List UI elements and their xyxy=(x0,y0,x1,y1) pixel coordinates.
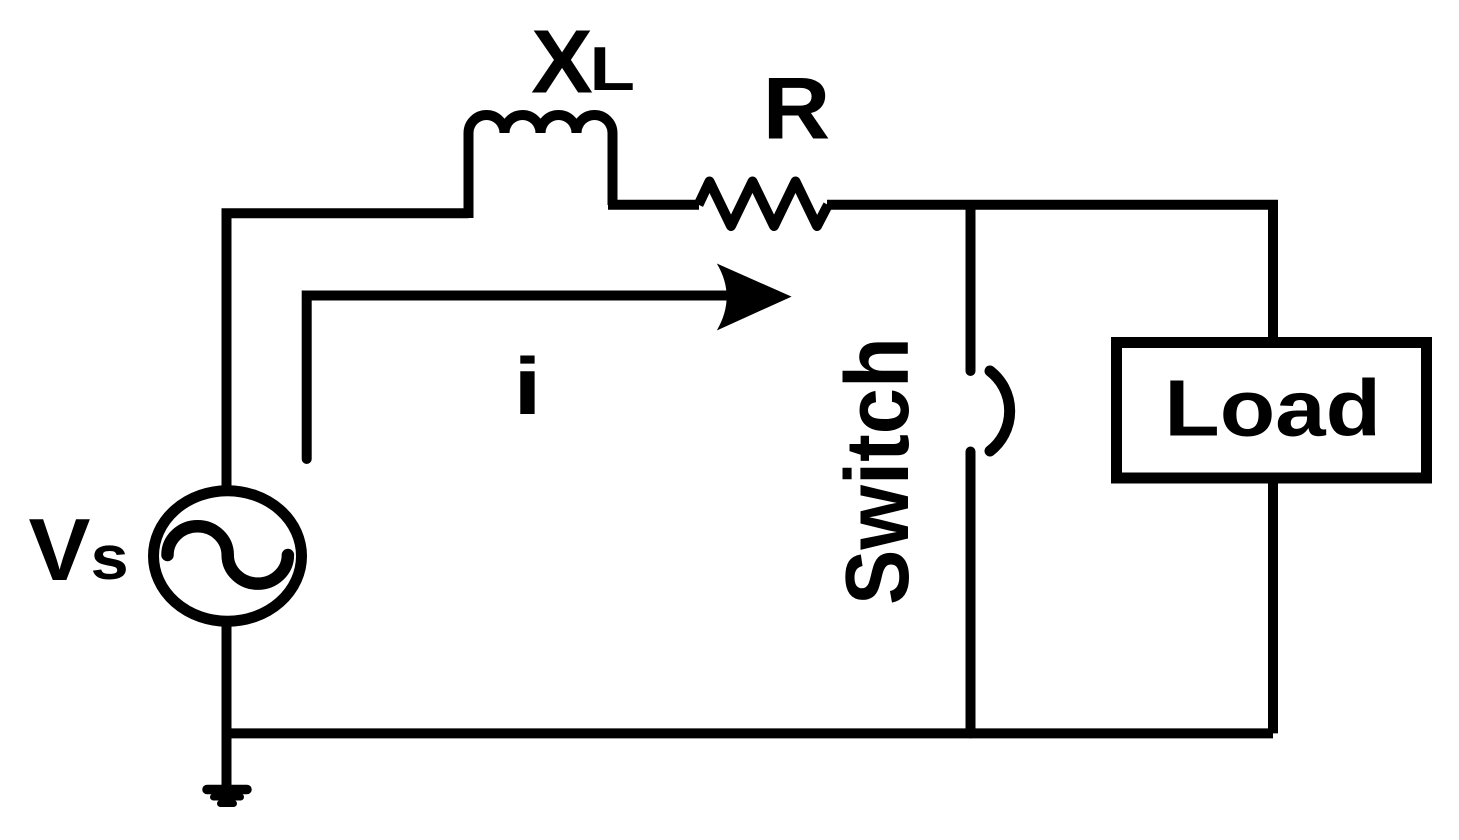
wire: top-left horizontal segment + left riser down to source Vs xyxy=(227,213,469,487)
wire: inductor to resistor xyxy=(608,200,699,210)
current arrow i: tail and shaft xyxy=(307,296,740,460)
source stem: circle bottom to ground xyxy=(222,620,232,789)
svg-text:Load: Load xyxy=(1164,363,1381,452)
AC voltage source Vs (circle) xyxy=(154,491,302,622)
svg-text:V: V xyxy=(29,500,91,599)
sine wave inside source xyxy=(168,526,288,583)
svg-text:R: R xyxy=(763,58,831,157)
svg-text:i: i xyxy=(513,342,542,432)
inductor XL xyxy=(469,115,613,218)
svg-text:L: L xyxy=(590,35,636,104)
wire: resistor to top-right corner and down to load xyxy=(827,205,1273,345)
load box xyxy=(1117,343,1427,479)
switch branch upper wire xyxy=(966,205,976,371)
svg-text:Switch: Switch xyxy=(828,337,928,605)
svg-text:s: s xyxy=(91,524,129,593)
ground symbol xyxy=(207,785,247,795)
wire: load bottom to bottom wire xyxy=(1268,478,1278,733)
switch branch lower wire xyxy=(966,452,976,734)
current arrow head xyxy=(717,264,792,331)
svg-text:X: X xyxy=(531,13,593,113)
bottom wire xyxy=(227,728,1274,738)
switch arc blade xyxy=(990,371,1010,451)
resistor R xyxy=(699,182,829,227)
